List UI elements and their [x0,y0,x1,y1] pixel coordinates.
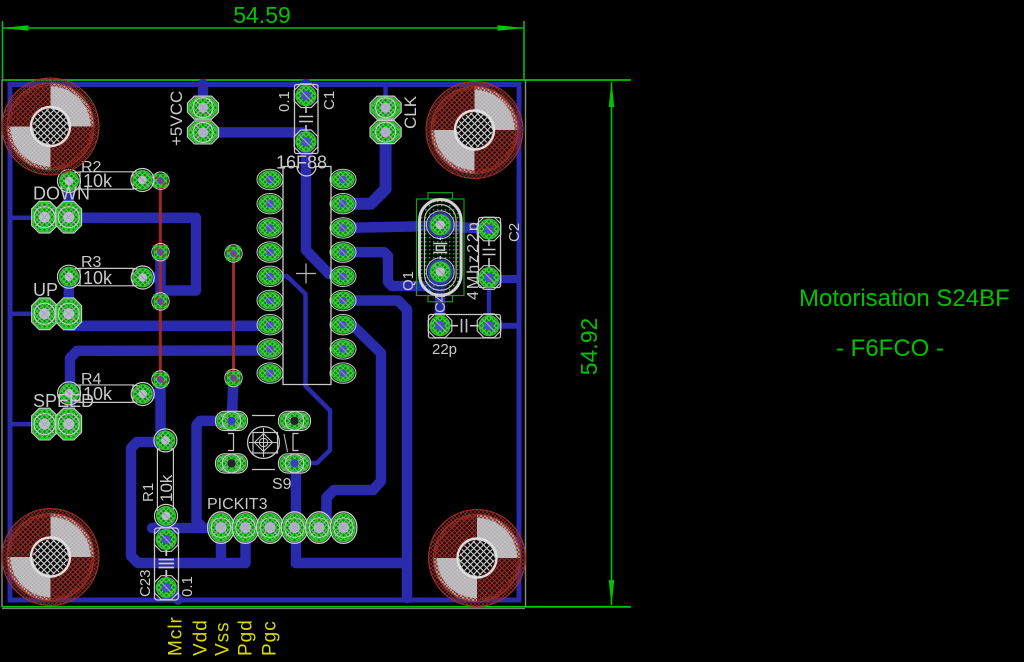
svg-text:DOWN: DOWN [33,184,90,204]
resistor R3 pad 2 [131,266,154,289]
svg-text:- F6FCO -: - F6FCO - [836,335,944,362]
svg-text:R1: R1 [140,483,157,502]
wire R4 right to via [143,389,161,400]
resistor R3 [73,254,139,288]
IC pin 7 left [257,315,283,335]
resistor R2 pad 1 [58,170,81,193]
wire +5VCC to C1 to IC pin8 [203,132,341,276]
via V3 [152,293,169,310]
resistor R4 pad 2 [131,383,154,406]
capacitor C2 [477,217,523,289]
svg-text:Motorisation S24BF: Motorisation S24BF [799,285,1010,312]
wire via chain R3 link [155,252,166,301]
svg-text:UP: UP [33,280,58,300]
svg-text:10k: 10k [83,268,113,288]
fiducial bottom-left [2,509,99,606]
wire red trace 1 [159,181,162,380]
wire DOWN to via column [69,218,197,291]
svg-text:0.1: 0.1 [276,91,293,112]
fiducial top-left [2,78,99,175]
wire pad2 riser [240,528,251,563]
board left edge [1,80,3,607]
connector +5VCC [167,91,219,146]
wire IC pin5L to S9 BR [270,276,330,463]
IC pin 15 right [330,242,356,262]
wire C1 top stub to plane [301,84,312,97]
wire R2 right to via [142,175,160,186]
wire red trace 2 [232,254,235,378]
op-amp U1 16F88 DIP18 outline [276,153,331,385]
wire SPEED left stub [11,422,45,427]
IC pin 9 left [257,363,283,383]
svg-text:C23: C23 [137,569,154,597]
vertical dimension line 54.92 [609,81,615,606]
ground polygon border ring [10,85,519,601]
connector SPEED [32,391,94,440]
svg-text:Q1: Q1 [400,271,417,291]
wire S9 BR riser [295,463,297,563]
svg-text:CLK: CLK [401,95,420,129]
wire R3 left to UP right [63,277,74,314]
svg-text:S9: S9 [272,476,292,493]
wire C2 bottom to C4 right [487,278,492,326]
connector PICKIT3 pad 1 [208,512,235,544]
switch S9 pad 4 [279,454,311,473]
wire DOWN left stub [11,215,45,220]
IC pin 14 right [330,266,356,286]
via V6 [225,369,242,386]
via V5 [225,245,242,262]
wire via2 to S9 TL [232,378,234,421]
IC pin 5 left [257,266,283,286]
horizontal dimension line 54.59 [3,25,525,31]
wire via to R1 top [161,380,166,441]
fiducial bottom-right [429,510,526,607]
resistor R4 [73,371,139,404]
connector UP [32,280,82,330]
wire IC pin7r to Q1 bottom [343,252,440,286]
resistor R3 pad 1 [58,265,81,288]
switch S9 [228,416,299,494]
IC pin 13 right [330,290,356,310]
crystal Q1 pad 1 [426,211,454,239]
IC pin 2 left [257,194,283,214]
IC pin 11 right [330,339,356,359]
IC pin 1 left [257,169,283,189]
IC pin 3 left [257,218,283,238]
svg-text:54.92: 54.92 [576,318,602,376]
connector PICKIT3 pad 3 [257,512,284,544]
wire R2 left to DOWN right [63,181,74,218]
svg-text:Vss: Vss [213,621,234,656]
wire S9 TL to PICKIT pad1 pad2 [197,421,246,528]
fiducial top-right [426,82,523,179]
IC pin 10 right [330,363,356,383]
crystal Q1 pad 2 [426,258,454,286]
IC pin 16 right [330,218,356,238]
wire Q1 bottom to C4 left [435,272,446,326]
wire C2 bottom to plane [489,275,517,283]
IC pin 18 right [330,169,356,189]
switch S9 pad 1 [216,411,248,430]
connector PICKIT3 [207,496,268,513]
resistor R2 pad 2 [131,169,154,192]
wire IC pin9r to S9 [343,301,407,599]
wire pad1 stub [216,540,227,563]
wire UP to IC pin [69,314,270,326]
resistor R4 pad 1 [58,382,81,405]
wire bus under R1 C23 [152,523,203,534]
resistor R1 pad 1 [154,429,177,452]
svg-text:22p: 22p [432,341,457,358]
wire UP left stub [11,312,45,317]
svg-text:Pgc: Pgc [260,620,281,656]
capacitor C4 [428,294,501,358]
wire CLK stub to plane [383,84,388,108]
resistor R1 [140,436,176,520]
wire C23 bottom stub to plane [166,588,178,600]
svg-text:SPEED: SPEED [33,391,94,411]
svg-text:+5VCC: +5VCC [167,91,186,146]
dimension extension line top / board top edge [2,79,631,81]
connector PICKIT3 pad 2 [232,512,259,544]
IC pin 8 left [257,339,283,359]
connector PICKIT3 pad 5 [306,512,333,544]
resistor R2 [73,159,138,191]
via V4 [152,371,169,388]
svg-text:Pgd: Pgd [236,619,257,656]
wire IC pin6r to Q1 to C2 [343,226,488,229]
svg-text:54.59: 54.59 [233,2,291,28]
IC pin 12 right [330,315,356,335]
wire S9 bus bottom [296,558,407,569]
switch S9 pad 2 [279,411,311,430]
svg-text:C1: C1 [321,91,338,110]
connector CLK [370,95,420,143]
via V1 [152,172,169,189]
svg-text:10k: 10k [157,474,176,502]
svg-text:PICKIT3: PICKIT3 [207,496,268,513]
wire IC pin to R4 left [70,350,270,424]
dimension extension line bottom / board bottom edge [2,606,631,608]
connector DOWN [32,184,90,234]
svg-text:C2: C2 [506,223,523,242]
board right edge [525,80,527,607]
svg-text:Mclr: Mclr [166,616,187,656]
wire R3 right to via column [143,272,161,283]
wire R1 top to left riser [131,442,246,563]
capacitor C1 [276,84,338,154]
connector PICKIT3 pad 4 [281,512,308,544]
svg-text:16F88: 16F88 [276,153,327,173]
svg-text:C4: C4 [432,294,449,313]
wire IC pin10r to PICKIT pad5 [320,325,382,528]
wire CLK to IC pin2r [343,132,386,204]
capacitor C23 [137,528,196,600]
svg-text:Vdd: Vdd [191,619,212,656]
dimension extension line right [523,21,525,80]
crystal Q1 [400,193,482,302]
switch S9 pad 3 [216,454,248,473]
dimension extension line left [2,21,4,80]
IC pin 17 right [330,194,356,214]
svg-text:0.1: 0.1 [179,576,196,597]
wire C4 right to plane [489,323,517,329]
resistor R1 pad 2 [155,504,178,527]
via V2 [152,244,169,261]
IC pin 4 left [257,242,283,262]
wire +5VCC stub to plane [198,84,209,108]
connector PICKIT3 pad 6 [330,512,357,544]
IC pin 6 left [257,290,283,310]
